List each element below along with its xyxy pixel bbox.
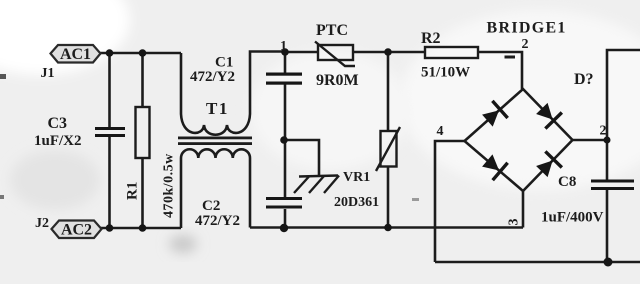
svg-text:J1: J1 [41,66,55,81]
svg-text:C3: C3 [48,115,68,132]
svg-text:AC2: AC2 [61,222,92,239]
svg-text:472/Y2: 472/Y2 [195,213,240,229]
svg-text:J2: J2 [35,216,49,231]
svg-text:470k/0.5w: 470k/0.5w [162,153,177,218]
svg-text:1uF/400V: 1uF/400V [541,210,604,226]
svg-text:1: 1 [280,39,287,54]
svg-text:C2: C2 [202,198,220,214]
svg-text:1uF/X2: 1uF/X2 [34,133,82,149]
svg-text:R1: R1 [125,182,141,200]
svg-text:D?: D? [574,71,594,88]
svg-text:C8: C8 [558,174,576,190]
svg-text:51/10W: 51/10W [421,65,470,81]
svg-text:T1: T1 [206,99,229,118]
svg-text:BRIDGE1: BRIDGE1 [487,20,567,37]
svg-text:4: 4 [437,124,444,139]
svg-text:2: 2 [600,124,607,139]
svg-text:AC1: AC1 [60,46,91,63]
svg-text:R2: R2 [421,30,441,47]
svg-text:472/Y2: 472/Y2 [190,69,235,85]
svg-text:PTC: PTC [316,22,348,39]
svg-text:VR1: VR1 [343,170,370,185]
svg-text:9R0M: 9R0M [316,72,359,89]
svg-text:2: 2 [522,37,529,52]
svg-text:3: 3 [507,219,522,226]
svg-text:20D361: 20D361 [334,195,379,210]
